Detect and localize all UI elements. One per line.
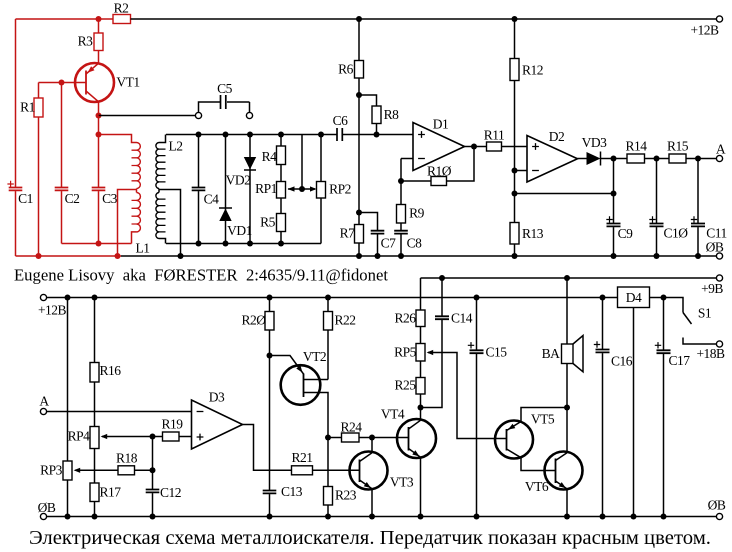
resistor R21 [291,450,312,475]
wire R5 [280,198,282,214]
node VD1 bottom [223,241,229,247]
svg-text:R21: R21 [291,450,312,465]
resistor R2 [113,1,131,24]
wire top ground rail [121,255,717,257]
terminal +18B [696,341,725,361]
svg-text:Электрическая схема металлоиск: Электрическая схема металлоискателя. Пер… [29,528,711,549]
svg-text:C14: C14 [451,311,473,326]
wire R19 to D3 [179,436,192,438]
wire A to D3 [47,411,192,413]
wire R16-RP4 [94,382,96,427]
diode VD1 [219,208,252,238]
node C4 bottom [196,241,202,247]
capacitor C7 [371,231,396,251]
svg-text:D3: D3 [209,390,225,405]
node L2 tap ground [178,253,184,259]
switch S1 [664,298,717,345]
node R6-R8 junction [356,92,362,98]
svg-text:C1Ø: C1Ø [663,226,688,241]
svg-text:C4: C4 [204,192,220,207]
wire R14 right [645,158,657,160]
svg-text:R12: R12 [522,63,543,78]
node R5 bottom [278,241,284,247]
capacitor C12 [146,485,181,500]
wire C14 bottom [421,320,443,408]
capacitor C17 [655,342,690,368]
wire C7 branch [359,213,378,231]
node VD1 top [223,132,229,138]
svg-text:RP3: RP3 [40,463,63,478]
wire R25 bottom [420,394,422,408]
svg-text:C15: C15 [485,345,507,360]
node wiper-R19 [150,434,156,440]
node R4 top [278,132,284,138]
wire R4 top [280,135,282,147]
node rail R16 [92,295,98,301]
node VT1 collector [96,113,102,119]
svg-text:R2Ø: R2Ø [241,313,266,328]
wire RP5-R25 [420,361,422,378]
svg-text:VT6: VT6 [525,479,549,494]
node R7-C7 junction [356,210,362,216]
node R15-C11 [695,156,701,162]
node C17 top [661,295,667,301]
capacitor C3 [92,188,118,207]
transistor VT5 [495,408,567,471]
wire tank top rail [166,134,337,136]
wire tank bottom red [62,243,132,245]
wire R14 left [614,158,628,160]
terminal A bottom [39,394,49,415]
node RP3 ground [65,514,71,520]
svg-text:BA: BA [542,346,561,361]
wire C6 to D1 [342,134,414,136]
transistor VT2 [270,349,329,438]
wire R18 right [135,469,153,471]
wire C16 bottom [602,353,604,516]
resistor R7 [340,225,364,244]
wire feedback down [447,147,475,182]
wire C13 line [269,356,271,491]
node rail C15 [474,295,480,301]
node rail R6 [356,16,362,22]
svg-text:RP1: RP1 [255,181,277,196]
node L1 top [96,132,102,138]
node C9 feedback [611,191,617,197]
svg-text:RP4: RP4 [68,429,91,444]
potentiometer RP3 [40,461,80,480]
wire +12V top rail red segment [16,18,114,20]
wire RP4 wiper [102,436,153,438]
wire R6 bottom [358,78,360,95]
wire tank bottom rail [166,243,321,245]
node rail R12 [512,16,518,22]
wire VD2 line [249,135,251,244]
capacitor C8 [394,231,422,251]
svg-text:R25: R25 [394,378,416,393]
wire R11 to D2 [502,146,528,148]
inductor L2 [156,135,183,244]
wire VD1 line [225,135,227,244]
terminal +12B bottom [38,294,67,317]
svg-text:S1: S1 [698,306,711,321]
svg-text:R1: R1 [20,100,35,115]
node R17 ground [92,514,98,520]
wire R20 bottom [269,330,271,356]
wire D1 minus input [401,158,413,160]
wire D4 output [650,297,664,299]
wire C12 line [152,437,154,490]
wire R17 bottom [94,502,96,517]
wire C17 bottom [663,354,665,517]
wire RP2 bottom [320,198,322,244]
svg-text:R14: R14 [625,139,647,154]
wire R1 bottom [38,117,40,256]
terminal 0B bottom left [38,500,56,520]
text fidonet line [14,266,388,285]
node VD3 out [611,156,617,162]
resistor R5 [260,214,285,232]
wire R7 top [358,213,360,225]
svg-text:R22: R22 [334,313,355,328]
resistor R18 [116,451,138,475]
wire R7 bottom [358,243,360,256]
wire C15 bottom [476,354,478,517]
svg-text:R9: R9 [409,206,425,221]
resistor R3 [78,33,103,51]
node C16 ground [600,514,606,520]
wire R26-RP5 [420,327,422,344]
node C17 ground [661,514,667,520]
wire R6 top [358,19,360,61]
transistor VT6 [525,408,583,517]
potentiometer RP2 [310,182,351,199]
wire R20 top [269,298,271,312]
wire collector to C5 terminal [99,115,196,117]
capacitor C11 [691,216,727,240]
resistor R6 [338,61,363,79]
wire wiper feed from rail [301,135,303,190]
svg-text:R18: R18 [116,451,138,466]
wire R4-RP1 [280,165,282,182]
wire R3 vertical [98,19,100,33]
capacitor C4 [192,188,219,207]
svg-text:C9: C9 [618,226,634,241]
wire RP3 bottom [67,480,69,517]
svg-text:C5: C5 [217,81,233,96]
resistor R1 [20,98,43,117]
wire R8 bottom [376,124,378,135]
node speaker-collector [564,405,570,411]
wire R1 top [38,83,40,99]
capacitor C2 [55,188,80,207]
svg-text:R5: R5 [260,215,276,230]
wire L1 tap [118,190,137,257]
svg-text:RP5: RP5 [394,345,417,360]
wire C13 bottom [269,494,271,516]
wire R24 left [328,437,342,439]
wire C9 top [613,194,615,224]
node VT4 collector [418,405,424,411]
node C9 ground [611,253,617,259]
terminal +12B top [690,16,722,38]
wire C3 top [98,135,100,188]
node rail C14 top [439,275,445,281]
wire C1 bottom [15,191,17,256]
diode VD3 [582,135,614,166]
terminal A top [716,142,726,162]
wire collector down to L1 node [98,116,100,135]
svg-text:C6: C6 [333,113,349,128]
resistor R11 [484,128,505,152]
wire D3 output [243,425,292,471]
op-amp D2 [527,129,578,182]
node base-C2 junction [59,80,65,86]
node C6-R8 [374,132,380,138]
node rail RP3 [65,295,71,301]
capacitor C10 [649,216,688,240]
wire bias down [514,171,516,194]
wire C7 bottom [377,234,379,256]
wire D2 output [578,158,587,160]
svg-text:R8: R8 [384,107,400,122]
node D2 minus [512,168,518,174]
wire bottom ground rail [47,516,717,518]
ic D4 [618,287,650,308]
resistor R23 [324,487,357,506]
wire R22 top [327,298,329,312]
svg-text:C12: C12 [160,485,181,500]
svg-text:L1: L1 [136,241,150,256]
node C12 ground [150,514,156,520]
potentiometer RP4 [68,427,108,449]
node C3 tank bottom [96,241,102,247]
node R14-C10 [654,156,660,162]
wire R19 left [153,436,163,438]
wire BA bottom [566,364,568,408]
svg-text:C17: C17 [668,353,690,368]
wire VT1 base [39,82,87,84]
wire C8 bottom [400,234,402,256]
wire minus node up [400,159,402,182]
node R18-C12 [150,467,156,473]
resistor R26 [394,310,425,327]
wire C11 bottom [697,227,699,256]
capacitor C14 [435,311,473,326]
svg-text:A: A [39,394,49,409]
resistor R19 [161,417,183,442]
node L1 tap ground [115,253,121,259]
svg-text:VT4: VT4 [381,407,405,422]
wire R12 top [514,19,516,59]
wire BA top [566,278,568,344]
resistor R17 [90,483,121,502]
wire R13 bottom [514,244,516,256]
resistor R4 [262,146,286,165]
svg-text:VT3: VT3 [390,475,414,490]
svg-text:VD1: VD1 [227,223,252,238]
wire C3 bottom [98,191,100,243]
wire R9-C8 [400,223,402,231]
terminal +9B [701,275,723,296]
resistor R15 [667,139,689,164]
svg-text:C7: C7 [381,236,397,251]
potentiometer RP1 [255,181,302,198]
inductor L1 [99,135,150,256]
wire C14 top [441,278,443,316]
wire C2 top [61,83,63,188]
capacitor C9 [606,216,633,241]
wire red bottom rail [16,255,122,257]
wire RP3 riser [67,298,69,462]
wire R13 top [514,194,516,223]
svg-text:C16: C16 [611,354,633,369]
svg-text:VD3: VD3 [582,135,607,150]
wire C11 top [697,159,699,224]
svg-text:ØB: ØB [38,500,56,515]
wire R11 left [474,146,487,148]
node C11 ground [695,253,701,259]
wire +9V rail [421,277,717,279]
op-amp D1 [413,117,465,171]
wire C10 bottom [656,227,658,256]
wire RP3 wiper to R18 [75,469,118,471]
wire +12V rail bottom section [47,297,618,299]
wire R15 left [657,158,670,160]
wire C10 top [656,159,658,224]
svg-text:C3: C3 [102,191,118,206]
svg-text:R16: R16 [99,363,121,378]
wire RP2 top [320,135,322,182]
svg-text:C11: C11 [706,226,727,241]
wire R5 bottom [280,232,282,244]
wire R12 bottom [514,81,516,171]
wire D4 ground lead [633,308,635,517]
node C8 ground [398,253,404,259]
wire R3 to VT1 [98,51,100,64]
node rail R22 [325,295,331,301]
connector X1 C5 bracket [195,102,252,119]
node rail R20 [267,295,273,301]
svg-text:R6: R6 [338,62,354,77]
transistor VT1 [75,63,140,102]
svg-text:RP2: RP2 [329,182,351,197]
svg-text:R26: R26 [394,311,416,326]
node D4 ground [631,514,637,520]
svg-text:R13: R13 [522,226,544,241]
wire wiper to RP2 [302,188,315,190]
svg-text:+18B: +18B [696,346,725,361]
svg-text:R15: R15 [667,139,689,154]
wire C15 top [476,298,478,351]
svg-text:R19: R19 [161,417,183,432]
node VT4 emitter ground [418,514,424,520]
wire R16 top [94,298,96,363]
resistor R25 [394,378,425,395]
wire R21 to VT3 [313,469,360,471]
svg-text:R1Ø: R1Ø [427,164,452,179]
wire C4 top [198,135,200,188]
resistor R22 [324,312,356,331]
node rail BA [564,275,570,281]
capacitor C13 [263,484,303,499]
wire D1 output [465,146,475,148]
svg-text:D2: D2 [549,129,565,144]
node C10 ground [654,253,660,259]
speaker BA [542,336,583,372]
node C4 top [196,132,202,138]
node VT2-R24 junction [325,435,331,441]
wire C17 line [663,298,665,351]
capacitor C5 [217,81,233,109]
wire R23 top [327,438,329,487]
wire VT4 base [372,437,409,439]
svg-text:VD2: VD2 [226,173,251,188]
svg-text:R11: R11 [484,128,505,143]
wire R23 bottom [327,505,329,517]
svg-text:C2: C2 [65,191,80,206]
svg-text:R17: R17 [99,485,121,500]
svg-text:VT5: VT5 [531,412,555,427]
resistor R8 [372,106,399,124]
node VD2 top [247,132,253,138]
transistor VT4 [381,407,436,517]
capacitor C6 [333,113,349,141]
node VD2 bottom [247,241,253,247]
potentiometer RP5 [394,344,433,362]
resistor R12 [510,59,543,81]
node C15 ground [474,514,480,520]
wire C12 bottom [152,493,154,516]
wire L2 tap [159,190,181,257]
diode VD2 [226,157,257,188]
svg-text:A: A [716,142,726,157]
wire R15 right [686,158,717,160]
node feedback D2 [512,191,518,197]
wire VT1 collector [98,102,100,116]
wire +12V top rail [131,18,717,20]
svg-text:L2: L2 [169,139,183,154]
svg-text:ØB: ØB [708,498,726,513]
svg-text:VT1: VT1 [116,75,139,90]
wire RP5 wiper to VT5 [428,353,507,439]
node RP1 wiper [299,186,305,192]
node R13 ground [512,253,518,259]
wire C4 bottom [198,191,200,243]
terminal 0B bottom right [708,498,726,520]
resistor R20 [241,312,274,331]
transistor VT3 [350,438,414,517]
node rail C16 [600,295,606,301]
node R1 ground [36,253,42,259]
svg-text:D4: D4 [626,290,642,305]
wire R26 riser [420,278,422,310]
resistor R14 [625,139,647,164]
svg-text:Eugene Lisovy aka FØRESTER: Eugene Lisovy aka FØRESTER 2:4635/9.11@f… [14,266,388,285]
svg-text:C8: C8 [407,236,423,251]
capacitor C15 [468,342,507,359]
node C7 ground [375,253,381,259]
svg-text:R24: R24 [340,420,362,435]
resistor R10 [427,164,452,186]
svg-text:R3: R3 [78,34,94,49]
wire VD3 node down [613,159,615,194]
resistor R24 [340,420,362,443]
node R23 ground [325,514,331,520]
svg-text:D1: D1 [433,117,449,132]
resistor R16 [90,363,121,383]
node RP2 rail [318,132,324,138]
